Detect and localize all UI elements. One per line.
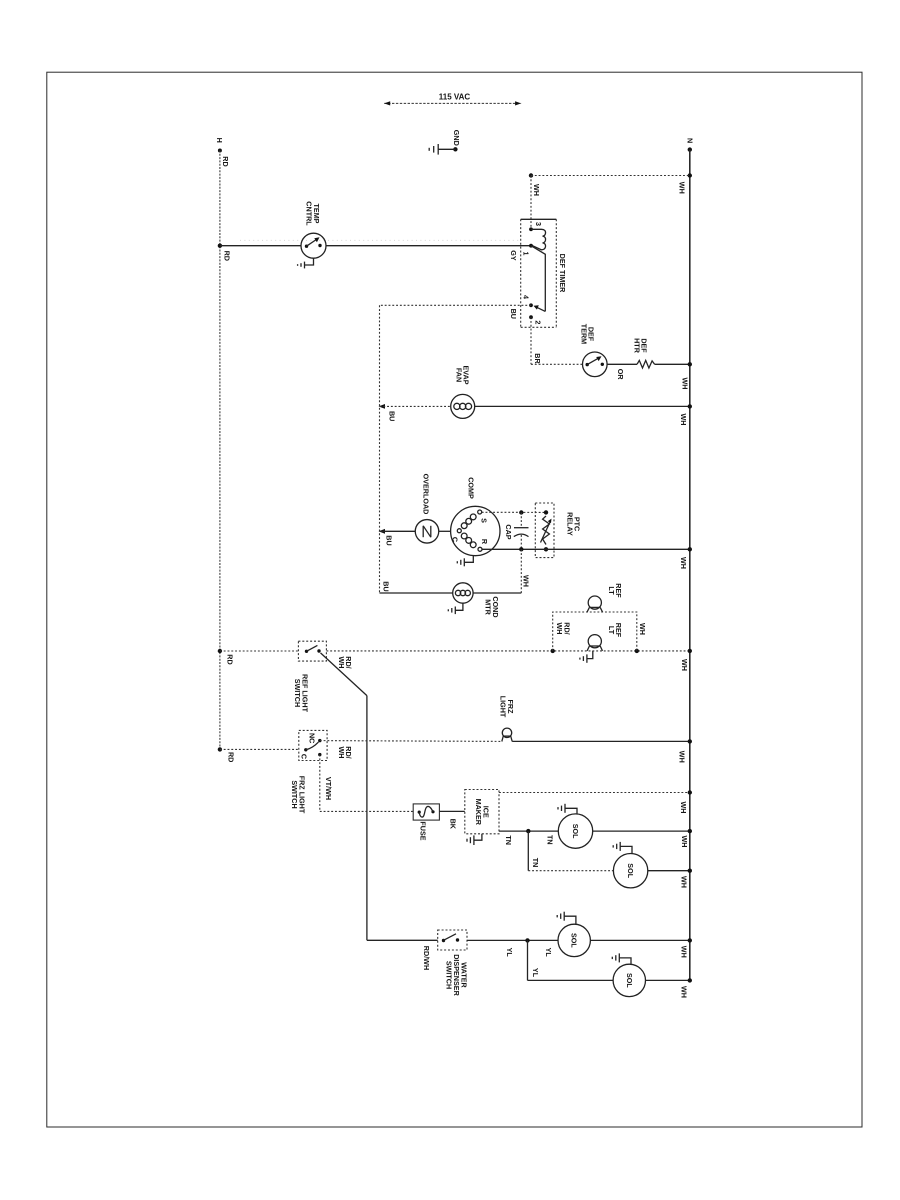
svg-text:TN: TN [531, 858, 540, 868]
solenoid SOL (ice maker 1) [558, 814, 592, 848]
node N [686, 138, 695, 152]
lamp REF LT (bottom) [587, 623, 623, 651]
wire TN: branch to sol im2 [528, 831, 613, 871]
wire BU: bus to evap fan [379, 404, 451, 421]
wire BU: bus to cond mtr [380, 581, 453, 593]
svg-text:FUSE: FUSE [419, 821, 428, 840]
defrost terminator DEF TERM [579, 324, 625, 381]
svg-text:YL: YL [505, 948, 514, 958]
ground (sol im1) [558, 804, 577, 814]
wire YL: branch to sol wd2 [528, 940, 614, 980]
svg-text:RD: RD [223, 251, 232, 261]
svg-text:BK: BK [449, 819, 458, 830]
ground (sol im2) [613, 842, 632, 854]
pin 2 [529, 315, 533, 319]
svg-text:WH: WH [337, 747, 346, 759]
svg-text:BU: BU [509, 309, 518, 319]
svg-text:NC: NC [308, 733, 317, 743]
svg-text:C: C [300, 754, 309, 759]
svg-text:WH: WH [337, 657, 346, 669]
PTC relay U [535, 503, 581, 558]
temp control TEMP CNTRL [301, 201, 326, 258]
wire: S pin to PTC relay [482, 510, 549, 515]
pin 1 [529, 244, 533, 248]
svg-text:SWITCH: SWITCH [290, 780, 299, 808]
svg-text:WH: WH [638, 623, 647, 635]
wire BU: bus to overload [379, 529, 416, 546]
wire RD/WH: diagonal to water dispenser switch [321, 653, 367, 940]
svg-text:SOL: SOL [570, 933, 579, 948]
svg-text:RD: RD [221, 156, 230, 166]
wire: def timer top to N (WH) [529, 173, 692, 229]
svg-text:WH: WH [555, 623, 564, 635]
wire BU bus vertical [379, 305, 381, 593]
water dispenser switch S3 [438, 930, 469, 997]
svg-text:WH: WH [680, 876, 689, 888]
ground (temp control) [298, 258, 314, 268]
wire RD: rail to frz light switch [218, 747, 299, 762]
ref lt lamp branch [551, 612, 648, 653]
svg-text:WH: WH [678, 751, 687, 763]
svg-text:WH: WH [679, 557, 688, 569]
ice maker module [465, 790, 499, 834]
wire WH: cap node down to cond mtr row [521, 549, 530, 593]
wire WH: sol wd1 to N [590, 938, 692, 958]
svg-text:LT: LT [607, 586, 616, 595]
wire BU: pin4 to left bus [380, 305, 532, 319]
lamp FRZ LIGHT [499, 696, 515, 742]
solenoid SOL (water 1) [558, 924, 590, 956]
wire VT/WH: frz light switch to fuse [320, 755, 413, 812]
svg-text:WH: WH [679, 802, 688, 814]
ground (ice maker) [467, 834, 482, 845]
evaporator fan motor EVAP FAN [451, 365, 475, 418]
wire WH: sol im1 to N [593, 829, 692, 848]
ground GND [429, 130, 461, 155]
wire RD: rail to ref light switch [218, 649, 299, 665]
svg-text:WH: WH [680, 986, 689, 998]
wire: temp control row (RD) [218, 240, 531, 261]
wire WH: ice maker to N [499, 790, 692, 813]
svg-text:OR: OR [616, 369, 625, 381]
wire OR: def term to def htr [607, 363, 637, 365]
svg-text:2: 2 [534, 320, 543, 324]
wire WH: sol wd2 to N [646, 978, 693, 998]
wire WH rail (N) [689, 150, 691, 981]
115 VAC annotation [384, 92, 521, 105]
svg-text:COMP: COMP [467, 477, 476, 499]
wire WH: frz light to N [512, 739, 692, 763]
svg-text:C: C [451, 537, 460, 542]
svg-text:RELAY: RELAY [565, 512, 574, 536]
svg-text:YL: YL [531, 968, 540, 978]
svg-text:WH: WH [532, 184, 541, 196]
svg-text:WH: WH [680, 659, 689, 671]
svg-text:3: 3 [534, 222, 543, 226]
svg-text:RD: RD [226, 654, 235, 664]
wire BR: pin2 to def term [531, 317, 583, 364]
svg-text:TN: TN [504, 835, 513, 845]
wire YL: switch to solenoids [467, 938, 558, 957]
svg-text:BR: BR [533, 353, 542, 364]
svg-text:SOL: SOL [625, 973, 634, 988]
ground (sol wd2) [612, 953, 631, 964]
wire TN: ice maker to solenoids [499, 829, 558, 845]
condenser motor COND MTR [453, 583, 522, 618]
svg-text:WH: WH [679, 414, 688, 426]
svg-text:4: 4 [522, 295, 531, 299]
svg-text:LIGHT: LIGHT [499, 696, 508, 718]
svg-text:GND: GND [452, 130, 461, 146]
svg-text:S: S [480, 518, 489, 523]
svg-text:TERM: TERM [579, 324, 588, 344]
node H [215, 138, 230, 167]
svg-text:SWITCH: SWITCH [293, 679, 302, 707]
svg-text:CAP: CAP [504, 524, 513, 539]
wire RD/WH: to water dispenser switch [367, 940, 438, 970]
svg-text:BU: BU [385, 535, 394, 545]
svg-text:GY: GY [509, 250, 518, 261]
svg-text:WH: WH [522, 575, 531, 587]
ground (ref lt) [580, 651, 593, 663]
svg-text:RD/WH: RD/WH [422, 946, 431, 970]
svg-text:SOL: SOL [626, 863, 635, 878]
svg-text:BU: BU [381, 581, 390, 591]
svg-text:LT: LT [607, 626, 616, 635]
wire WH: evap fan to N [475, 404, 692, 425]
def timer motor coil [531, 229, 546, 250]
def timer switch arm [531, 246, 545, 312]
svg-text:WH: WH [678, 182, 687, 194]
overload protector OVERLOAD [415, 474, 450, 543]
wire RD/WH: frz light switch to frz light [320, 741, 503, 759]
svg-text:FAN: FAN [455, 368, 464, 382]
svg-text:1: 1 [522, 252, 531, 256]
svg-text:WH: WH [680, 836, 689, 848]
svg-text:115 VAC: 115 VAC [439, 92, 471, 101]
wire RD/WH: ref light switch to ref lt lamps [326, 651, 689, 669]
fuse F1 [413, 804, 439, 841]
svg-text:DEF TIMER: DEF TIMER [558, 254, 567, 294]
def timer DEF TIMER [521, 219, 567, 327]
svg-text:MTR: MTR [484, 599, 493, 615]
svg-text:OVERLOAD: OVERLOAD [422, 474, 431, 515]
wire WH: sol im2 to N [648, 869, 692, 888]
svg-text:SOL: SOL [571, 824, 580, 839]
capacitor CAP [504, 513, 529, 550]
solenoid SOL (ice maker 2) [613, 854, 647, 888]
svg-text:TN: TN [545, 835, 554, 845]
ground (cond mtr) [448, 603, 463, 614]
wire BK: fuse to ice maker [439, 811, 464, 829]
svg-text:WH: WH [680, 946, 689, 958]
lamp REF LT (top) [587, 583, 623, 612]
node: ref lt row to N [680, 649, 692, 671]
frz light switch S2 [290, 730, 327, 813]
svg-text:H: H [215, 138, 224, 143]
pin 3 [529, 227, 533, 231]
svg-text:YL: YL [544, 948, 553, 958]
svg-text:MAKER: MAKER [474, 799, 483, 826]
wire RD rail (H) [219, 151, 221, 750]
svg-text:SWITCH: SWITCH [445, 961, 454, 989]
ground (sol wd1) [557, 912, 576, 925]
svg-text:WH: WH [681, 378, 690, 390]
svg-text:VT/WH: VT/WH [324, 777, 333, 800]
pin 4 [529, 303, 533, 307]
wire WH: R pin through PTC to N [482, 547, 692, 569]
ground (compressor) [457, 556, 473, 567]
solenoid SOL (water 2) [613, 964, 645, 996]
ref light switch S1 [293, 641, 327, 712]
svg-text:HTR: HTR [633, 338, 642, 354]
svg-text:R: R [480, 539, 489, 545]
svg-text:N: N [686, 138, 695, 143]
wire WH: def htr to N [655, 362, 692, 389]
svg-text:RD: RD [227, 752, 236, 762]
defrost heater DEF HTR [633, 338, 655, 368]
svg-text:CNTRL: CNTRL [304, 201, 313, 226]
compressor motor COMP [451, 477, 500, 555]
svg-text:BU: BU [388, 411, 397, 421]
